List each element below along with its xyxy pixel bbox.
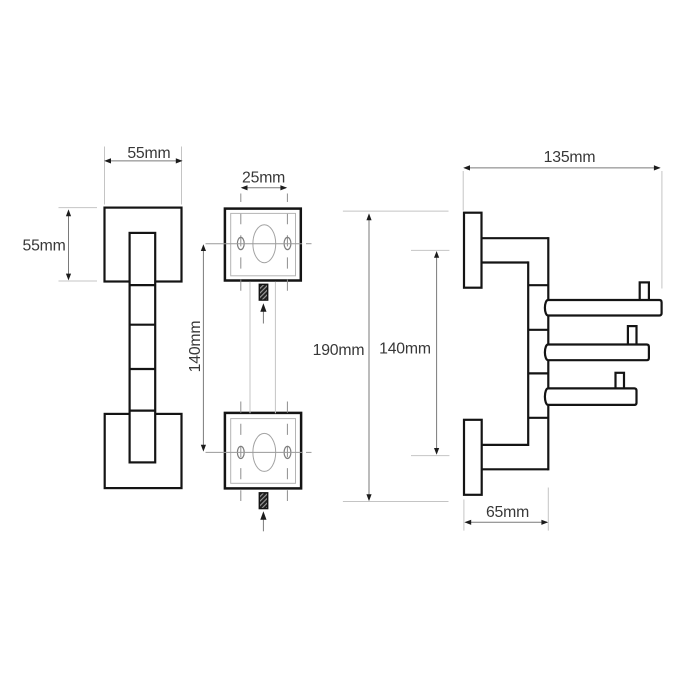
pivot bar divider 3 xyxy=(528,372,548,374)
dimension line 135mm depth xyxy=(465,167,660,169)
extension line, top-right of front view xyxy=(181,147,183,205)
bottom plate centre hole xyxy=(253,433,276,471)
svg-text:140mm: 140mm xyxy=(379,341,431,358)
dimension line 25mm hole spacing xyxy=(242,187,286,189)
dimension line 65mm wall arm length xyxy=(466,521,548,523)
top wall arm lower edge xyxy=(482,261,529,263)
extension line 135mm right xyxy=(661,171,663,289)
top plate screw hole right xyxy=(284,237,291,249)
dimension line 55mm height (front view) xyxy=(68,211,70,279)
screw centre dashed line, right lower xyxy=(286,402,288,502)
bar segment divider 1 (front view) xyxy=(130,284,156,286)
dimension line 190mm overall height xyxy=(368,216,370,499)
insertion arrow under bottom plate xyxy=(262,520,264,532)
extension line 135mm left xyxy=(462,171,464,211)
extension line 65mm right xyxy=(547,488,549,531)
bar hidden edge, right (between plates) xyxy=(274,282,276,413)
hook arm 3 (bottom) xyxy=(545,388,637,405)
dimension line 140mm plate spacing xyxy=(202,247,204,450)
pivot bar left edge xyxy=(527,261,529,446)
top plate inner face xyxy=(231,213,296,275)
svg-text:55mm: 55mm xyxy=(127,145,170,162)
top mounting plate outline xyxy=(225,209,301,281)
svg-text:135mm: 135mm xyxy=(544,149,596,166)
bar hidden edge, left (between plates) xyxy=(249,282,251,413)
dimension line 55mm width (front view) xyxy=(106,160,182,162)
bottom plate centre line xyxy=(206,451,303,453)
hook peg 3 xyxy=(616,373,625,391)
grub screw under bottom plate xyxy=(259,493,267,509)
top wall arm upper edge xyxy=(482,237,549,239)
hook peg 2 xyxy=(628,326,637,346)
bottom plate inner face xyxy=(231,419,296,484)
top plate centre line xyxy=(206,243,303,245)
bottom plate screw hole left xyxy=(237,446,244,458)
hook arm 2 (middle) xyxy=(545,345,649,361)
insertion arrow under top plate xyxy=(262,311,264,324)
extension line 140mm bottom (side view) xyxy=(411,455,449,457)
extension line, left-bottom of front view xyxy=(59,280,98,282)
screw centre dashed line, right upper xyxy=(286,194,288,297)
svg-text:55mm: 55mm xyxy=(23,237,66,254)
top wall block (side view) xyxy=(464,213,482,288)
extension line 190mm top xyxy=(343,210,449,212)
extension line 190mm bottom xyxy=(343,501,449,503)
svg-text:190mm: 190mm xyxy=(313,342,365,359)
extension line, left-top of front view xyxy=(59,207,98,209)
extension line, top-left of front view xyxy=(104,147,106,205)
bottom wall arm upper edge xyxy=(482,444,529,446)
extension line 65mm left xyxy=(463,500,465,531)
pivot bar divider 1 xyxy=(528,284,548,286)
svg-text:65mm: 65mm xyxy=(486,504,529,521)
screw centre dashed line, left upper xyxy=(240,194,242,297)
bottom mounting plate outline xyxy=(225,413,301,489)
top wall plate square (front view) xyxy=(105,208,182,282)
bar segment divider 2 (front view) xyxy=(130,324,156,326)
top plate centre hole xyxy=(253,225,276,263)
bottom wall block (side view) xyxy=(464,420,482,495)
grub screw under top plate xyxy=(259,284,267,300)
pivot bar divider 4 xyxy=(528,417,548,419)
pivot bar right edge xyxy=(547,237,549,470)
pivot bar divider 2 xyxy=(528,329,548,331)
hook arm 1 (top) xyxy=(545,300,662,316)
bottom wall arm lower edge xyxy=(482,468,549,470)
bar segment divider 4 (front view) xyxy=(130,410,156,412)
top plate screw hole left xyxy=(237,237,244,249)
screw centre dashed line, left lower xyxy=(240,402,242,502)
bottom wall plate square (front view) xyxy=(105,414,182,488)
bar segment divider 3 (front view) xyxy=(130,368,156,370)
hook arm bar (front view) xyxy=(130,233,156,463)
svg-text:25mm: 25mm xyxy=(242,169,285,186)
svg-text:140mm: 140mm xyxy=(187,321,204,373)
bottom plate screw hole right xyxy=(284,446,291,458)
hook peg 1 xyxy=(640,282,649,302)
dimension line 140mm arm spacing (side view) xyxy=(436,254,438,453)
extension line 140mm top (side view) xyxy=(411,249,449,251)
